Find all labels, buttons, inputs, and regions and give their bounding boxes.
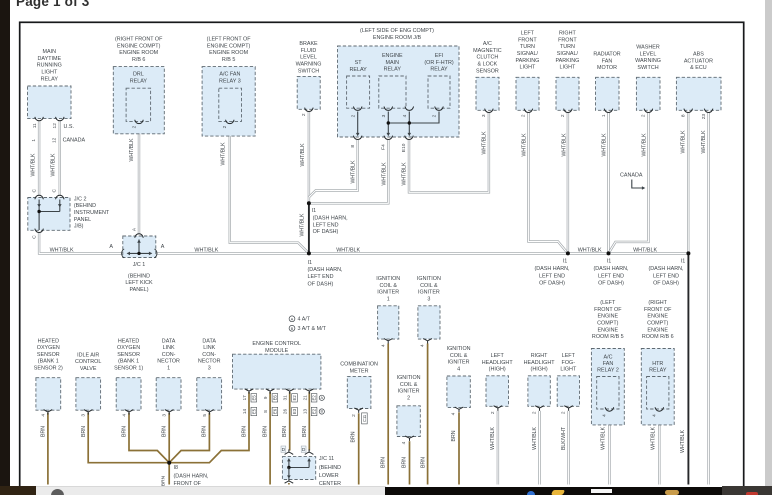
svg-text:8: 8 bbox=[263, 410, 268, 413]
wire BRN from ECM pin 17/14 to splice I8 bbox=[169, 392, 249, 463]
svg-text:4: 4 bbox=[380, 344, 386, 347]
svg-text:A: A bbox=[321, 396, 324, 400]
svg-text:5: 5 bbox=[202, 414, 208, 417]
left dark browser strip bbox=[0, 0, 10, 495]
svg-text:A: A bbox=[291, 317, 294, 322]
splice dot I1 radiator fan bbox=[607, 251, 611, 255]
svg-text:E3: E3 bbox=[292, 408, 297, 414]
taskbar gold swirl icon bbox=[665, 490, 679, 495]
svg-text:9: 9 bbox=[263, 396, 268, 399]
svg-text:(BEHINDLOWERCENTER: (BEHINDLOWERCENTER bbox=[319, 465, 341, 487]
svg-text:COMBINATIONMETER: COMBINATIONMETER bbox=[340, 362, 378, 375]
svg-text:IDLE AIRCONTROLVALVE: IDLE AIRCONTROLVALVE bbox=[75, 352, 101, 372]
splice dot I1 upper (dash harn left end of dash) bbox=[307, 201, 311, 205]
wire WHT/BLK from engine main relay terminal F4 to junction I1 upper bbox=[311, 140, 388, 203]
svg-text:D: D bbox=[302, 447, 306, 453]
svg-text:3 A/T & M/T: 3 A/T & M/T bbox=[298, 326, 327, 332]
junction connector J/C 11 (BEHIND LOWER CENTER) bbox=[285, 449, 294, 454]
splice dot I8 brown bbox=[167, 461, 171, 465]
svg-text:I8: I8 bbox=[174, 465, 179, 471]
wire WHT/BLK from ST relay terminal 8 to junction I1 upper bbox=[309, 140, 358, 197]
svg-text:13: 13 bbox=[302, 409, 307, 415]
svg-text:4 A/T: 4 A/T bbox=[298, 316, 311, 322]
svg-text:D: D bbox=[282, 447, 286, 453]
wire BRN from ECM pin 21/13 to J/C11 bbox=[308, 392, 310, 451]
svg-text:4: 4 bbox=[652, 414, 658, 417]
svg-text:B: B bbox=[291, 326, 294, 331]
splice dot I1 bus right end bbox=[686, 251, 690, 255]
svg-text:E5: E5 bbox=[251, 395, 256, 401]
svg-text:DATALINKCON-NECTOR1: DATALINKCON-NECTOR1 bbox=[157, 338, 180, 371]
svg-text:BRN: BRN bbox=[121, 426, 127, 437]
svg-text:BRN: BRN bbox=[302, 426, 308, 437]
bottom left dark brown block bbox=[0, 486, 36, 495]
wire WHT/BLK from main DRL relay pin 12 to J/C2 bbox=[59, 121, 61, 196]
wire WHT/BLK from ABS actuator pin 23 down off page bbox=[707, 112, 709, 485]
svg-text:HEATEDOXYGENSENSOR(BANK 1SENSO: HEATEDOXYGENSENSOR(BANK 1SENSOR 2) bbox=[34, 338, 63, 371]
svg-text:WHT/BLK: WHT/BLK bbox=[651, 426, 657, 450]
svg-text:IGNITIONCOIL &IGNITER1: IGNITIONCOIL &IGNITER1 bbox=[376, 276, 400, 302]
wire BRN from data link connector 3 to splice I8 bbox=[169, 413, 209, 463]
wire WHT/BLK from main DRL relay pin 11 to J/C2 bbox=[38, 121, 40, 196]
svg-text:(LEFTFRONT OFENGINECOMPT)ENGIN: (LEFTFRONT OFENGINECOMPT)ENGINEROOM R/B … bbox=[592, 300, 624, 340]
wire WHT/BLK from left headlight high pin 2 down off page bbox=[497, 411, 499, 485]
junction connector J/C 2 (BEHIND INSTRUMENT PANEL J/B) bbox=[28, 198, 70, 231]
svg-text:E6: E6 bbox=[272, 395, 277, 401]
svg-text:BRN: BRN bbox=[241, 426, 247, 437]
wire BRN from idle air control valve to splice I8 bbox=[88, 413, 168, 463]
svg-text:4: 4 bbox=[420, 344, 426, 347]
bottom gray bar icon circle bbox=[51, 489, 64, 495]
wire BRN from heated oxygen sensor bank1 sensor1 to splice I8 bbox=[129, 413, 169, 463]
wire WHT/BLK from HTR relay pin 4 down off page bbox=[658, 414, 660, 485]
svg-text:WHT/BLK: WHT/BLK bbox=[532, 426, 538, 450]
svg-text:LEFTFOG-LIGHT: LEFTFOG-LIGHT bbox=[560, 353, 577, 373]
svg-text:BRN: BRN bbox=[350, 431, 356, 442]
svg-text:3: 3 bbox=[81, 414, 87, 417]
wire BRN from splice I8 down off page bbox=[168, 463, 170, 485]
svg-text:4: 4 bbox=[40, 414, 46, 417]
svg-text:4: 4 bbox=[602, 414, 608, 417]
right gray scrollbar strip bbox=[765, 0, 772, 495]
svg-text:14: 14 bbox=[242, 409, 247, 415]
svg-text:4: 4 bbox=[401, 441, 407, 444]
svg-text:E2: E2 bbox=[312, 395, 317, 401]
svg-text:21: 21 bbox=[302, 395, 307, 401]
taskbar blue icon bbox=[527, 491, 535, 495]
legend circled B 3 A/T and M/T bbox=[289, 325, 295, 331]
svg-text:2: 2 bbox=[351, 414, 357, 417]
svg-text:BRN: BRN bbox=[380, 457, 386, 468]
wire BRN from ECM pin 9/8 down off page bbox=[269, 392, 271, 485]
J/B internal wiring bbox=[353, 107, 362, 111]
junction connector J/C 1 (BEHIND LEFT KICK PANEL) bbox=[123, 236, 156, 258]
svg-text:BRN: BRN bbox=[451, 430, 457, 441]
svg-text:4: 4 bbox=[450, 412, 456, 415]
svg-text:BRN: BRN bbox=[41, 426, 47, 437]
dash harness link I1 upper junction to bus bbox=[308, 203, 310, 253]
svg-text:B: B bbox=[321, 410, 324, 414]
svg-text:E2: E2 bbox=[312, 408, 317, 414]
svg-text:LEFTHEADLIGHT(HIGH): LEFTHEADLIGHT(HIGH) bbox=[482, 353, 514, 373]
svg-text:IGNITIONCOIL &IGNITER2: IGNITIONCOIL &IGNITER2 bbox=[397, 375, 421, 401]
legend circled A 4 A/T bbox=[289, 316, 295, 322]
svg-text:26: 26 bbox=[283, 409, 288, 415]
taskbar right dark-gray segment bbox=[722, 486, 772, 495]
svg-text:BRN: BRN bbox=[161, 426, 167, 437]
svg-text:4: 4 bbox=[122, 414, 128, 417]
svg-text:BRN: BRN bbox=[262, 426, 268, 437]
svg-text:17: 17 bbox=[242, 395, 247, 401]
wire WHT/BLK from ABS actuator pin 8 to bus end junction I1 bbox=[687, 112, 689, 253]
svg-text:3: 3 bbox=[162, 414, 168, 417]
wire BRN from ECM pin 31/26 to J/C11 bbox=[289, 392, 291, 451]
svg-text:BRN: BRN bbox=[161, 475, 167, 486]
svg-text:(DASH HARN,FRONT OF: (DASH HARN,FRONT OF bbox=[174, 474, 210, 487]
svg-text:BLK/WHT: BLK/WHT bbox=[561, 426, 567, 450]
dash harness WHT/BLK line from bus end I1 down off page bbox=[687, 253, 689, 484]
svg-text:31: 31 bbox=[283, 395, 288, 401]
svg-text:DATALINKCON-NECTOR3: DATALINKCON-NECTOR3 bbox=[198, 338, 221, 371]
bottom gray bar bbox=[36, 486, 386, 495]
svg-text:RIGHTHEADLIGHT(HIGH): RIGHTHEADLIGHT(HIGH) bbox=[524, 353, 556, 373]
svg-text:WHT/BLK: WHT/BLK bbox=[601, 426, 607, 450]
wire WHT/BLK from radiator fan motor pin 1 to bus junction I1 bbox=[607, 112, 609, 253]
wire BRN from data link connector 1 to splice I8 bbox=[168, 413, 170, 463]
svg-text:IGNITIONCOIL &IGNITER4: IGNITIONCOIL &IGNITER4 bbox=[447, 346, 471, 372]
wire WHT/BLK from DRL relay pin 2 to J/C1 top pin bbox=[138, 123, 140, 234]
J/B bottom connectors 8 F4 E10 bbox=[353, 136, 362, 140]
taskbar red icon bbox=[746, 492, 758, 495]
wire BRN from combination meter pin 2 down off page bbox=[358, 413, 360, 484]
svg-text:2: 2 bbox=[490, 411, 496, 414]
svg-text:2: 2 bbox=[561, 411, 567, 414]
svg-text:HEATEDOXYGENSENSOR(BANK 1SENSO: HEATEDOXYGENSENSOR(BANK 1SENSOR 1) bbox=[114, 338, 143, 371]
svg-text:(RIGHTFRONT OFENGINECOMPT)ENGI: (RIGHTFRONT OFENGINECOMPT)ENGINEROOM R/B… bbox=[642, 300, 674, 340]
wire BRN from J/C11 bottom pin D down off page bbox=[288, 483, 290, 485]
svg-text:WHT/BLK: WHT/BLK bbox=[680, 429, 686, 453]
svg-text:BRN: BRN bbox=[420, 457, 426, 468]
wire BLK/WHT from left fog light pin 2 down off page bbox=[567, 411, 569, 485]
wire WHT/BLK from A/C fan relay 3 pin 2 to bus junction I1 bbox=[230, 123, 309, 253]
svg-text:BRN: BRN bbox=[81, 426, 87, 437]
svg-text:ENGINE CONTROLMODULE: ENGINE CONTROLMODULE bbox=[252, 341, 301, 354]
wire WHT/BLK from left front turn signal pin 2 to bus junction bbox=[528, 112, 568, 253]
wire BRN from ignition coil igniter 4 down off page bbox=[458, 412, 460, 484]
wire WHT/BLK bus from J/C2 bottom pin along dash to right end bbox=[39, 232, 688, 253]
svg-text:BRN: BRN bbox=[282, 426, 288, 437]
svg-text:E6: E6 bbox=[272, 408, 277, 414]
taskbar yellow swoosh icon bbox=[551, 490, 565, 495]
svg-text:E5: E5 bbox=[251, 408, 256, 414]
svg-text:J/C 11: J/C 11 bbox=[319, 456, 334, 462]
wire BRN from ignition coil igniter 3 down off page bbox=[427, 344, 429, 485]
splice dot I1 right front turn bbox=[566, 251, 570, 255]
svg-text:BRN: BRN bbox=[401, 457, 407, 468]
wire BRN from ignition coil igniter 2 down off page bbox=[409, 441, 411, 484]
svg-text:IGNITIONCOIL &IGNITER3: IGNITIONCOIL &IGNITER3 bbox=[417, 276, 441, 302]
wire WHT/BLK from right front turn signal pin 2 to bus junction I1 bbox=[567, 112, 569, 253]
svg-text:WHT/BLK: WHT/BLK bbox=[490, 426, 496, 450]
svg-text:E2: E2 bbox=[292, 395, 297, 401]
splice dot I1 on bus at left bbox=[307, 251, 311, 255]
svg-text:BRN: BRN bbox=[201, 426, 207, 437]
bottom black taskbar bbox=[385, 487, 725, 495]
svg-text:2: 2 bbox=[532, 411, 538, 414]
wire BRN from ignition coil igniter 1 down off page bbox=[387, 344, 389, 485]
taskbar white window icon bbox=[591, 489, 612, 493]
wire BRN from heated oxygen sensor bank1 sensor2 down off page bbox=[47, 413, 49, 485]
svg-text:C11: C11 bbox=[362, 414, 367, 422]
page title bbox=[16, 0, 89, 9]
wire WHT/BLK from EFI relay terminal E10 to A/C magnetic clutch sensor pin 3 bbox=[409, 112, 489, 192]
wire WHT/BLK from A/C fan relay 2 pin 4 down off page bbox=[608, 414, 610, 485]
wire WHT/BLK from washer level switch pin 2 (Canada) to bus junction I1 bbox=[609, 112, 649, 253]
wire WHT/BLK from right headlight high pin 2 down off page bbox=[538, 411, 540, 485]
wire WHT/BLK from brake fluid level switch pin 2 to junction I1 upper bbox=[308, 111, 310, 203]
